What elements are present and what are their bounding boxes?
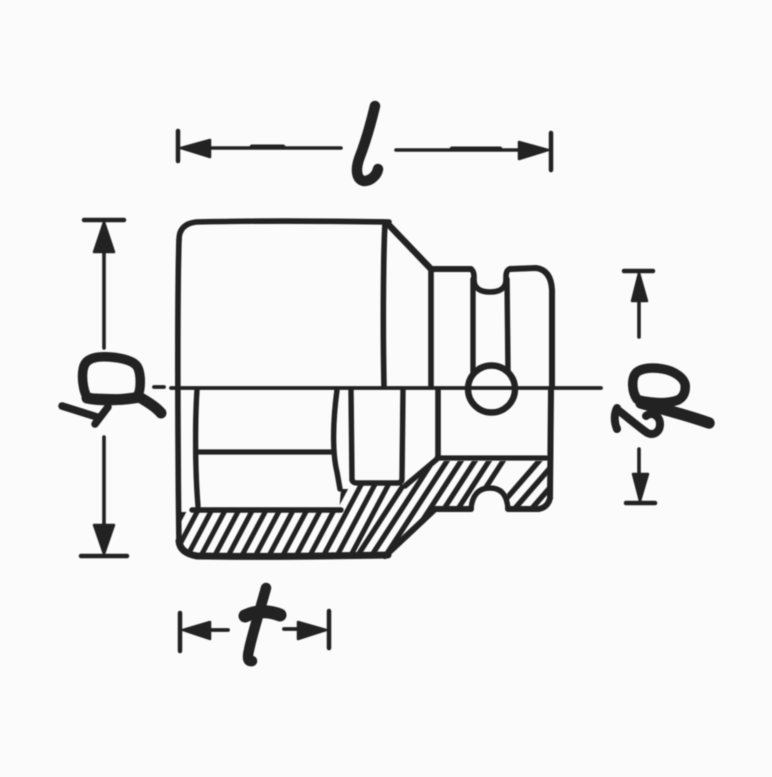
dimension d1: bottom arrowhead: [94, 525, 114, 554]
dimension d2: lower shaft: [637, 449, 641, 474]
dimension l: left arrowhead: [181, 140, 210, 157]
label d2 subscript 2: [615, 408, 660, 434]
inner wall A: [334, 390, 340, 489]
bottom-left corner and bottom edge: [179, 541, 388, 556]
dimension t: right arrowhead: [298, 622, 326, 639]
label d1 subscript 1: [62, 406, 108, 424]
label d2 ring: [633, 368, 686, 403]
pin hole circle: [468, 366, 515, 413]
square cavity bottom: [437, 455, 546, 460]
hex cavity mid edge: [198, 449, 331, 454]
dimension d1: lower shaft: [102, 437, 106, 524]
chamfer top: [387, 223, 431, 269]
label d1 stem: [87, 397, 161, 413]
hex cavity floor line: [192, 507, 341, 512]
dimension d2: upper shaft: [637, 299, 641, 337]
dimension d1: top arrowhead: [94, 222, 114, 252]
right wall lower: [550, 390, 551, 498]
dimension l: left tick: [176, 131, 181, 161]
cone transition diagonal: [405, 459, 437, 486]
hatch strokes: [150, 435, 681, 575]
dimension l: right tick: [549, 133, 554, 170]
label d2 stem: [641, 403, 709, 423]
inner left wall of hex cavity: [196, 390, 198, 506]
inner wall C: [402, 390, 403, 479]
socket body top-left corner and top edge: [179, 221, 389, 240]
dimension d1: upper shaft: [102, 251, 106, 348]
label t stem: [248, 588, 266, 661]
centerline: [154, 387, 601, 388]
right section bottom edge left of notch: [434, 506, 471, 512]
groove vertical right: [507, 279, 508, 371]
right edge of large section: [383, 223, 385, 386]
dimension t: left arrowhead: [183, 622, 210, 639]
dimension t: left shaft: [207, 628, 228, 632]
middle cavity bottom: [352, 479, 402, 483]
dimension d2: bottom tick: [626, 501, 655, 506]
dimension l: right shaft: [396, 148, 521, 152]
dimension t: left tick: [178, 613, 183, 651]
dimension d2: bottom arrowhead: [633, 474, 648, 501]
groove notch (bottom): [471, 488, 508, 509]
right section top edge left of groove: [431, 266, 471, 272]
label d1 ring: [83, 357, 141, 400]
left outer wall: [178, 240, 179, 541]
label l: [357, 106, 378, 181]
dimension t: right shaft: [284, 627, 299, 631]
groove (top): [470, 269, 510, 292]
right wall upper: [549, 290, 555, 386]
dimension l: left shaft: [206, 146, 341, 150]
square cavity left wall: [435, 390, 441, 458]
dimension d2: top arrowhead: [632, 273, 647, 301]
right section top edge right of groove and top-right corner: [510, 268, 552, 290]
dimension d1: bottom tick: [81, 554, 127, 559]
dimension d2: top tick: [624, 269, 653, 274]
right section bottom edge right of notch and corner: [508, 498, 550, 509]
groove vertical left: [470, 279, 475, 372]
label t crossbar: [245, 612, 280, 616]
vertical below chamfer (top half): [428, 271, 434, 386]
dimension d1: top tick: [84, 218, 124, 223]
dimension l: right arrowhead: [519, 142, 548, 159]
inner wall B: [351, 390, 352, 480]
chamfer bottom: [385, 510, 434, 556]
dimension t: right tick: [327, 611, 332, 648]
